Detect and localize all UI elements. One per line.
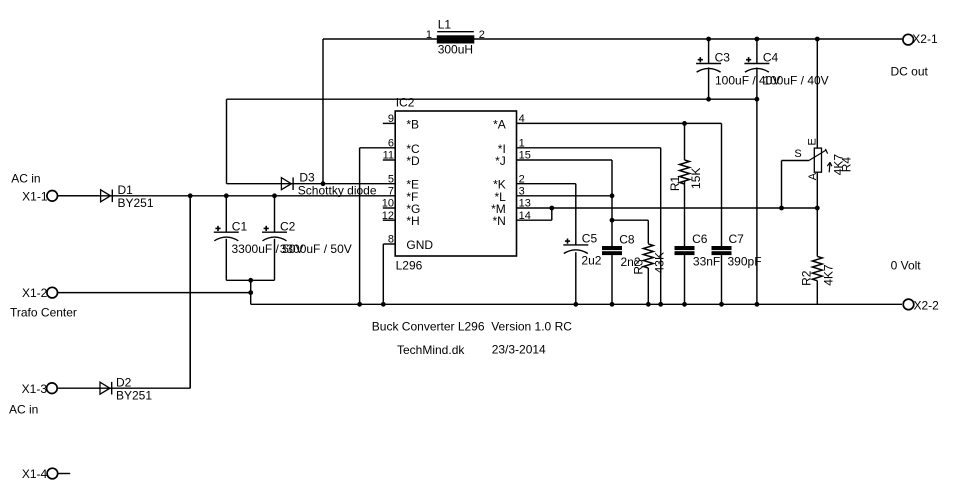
svg-text:*D: *D (406, 154, 420, 168)
svg-text:300uH: 300uH (438, 42, 473, 56)
svg-text:4K7: 4K7 (822, 264, 836, 286)
svg-text:X2-2: X2-2 (914, 299, 940, 313)
svg-text:DC out: DC out (891, 65, 929, 79)
svg-text:3: 3 (519, 185, 525, 197)
svg-text:S: S (794, 148, 801, 160)
svg-text:1: 1 (426, 29, 432, 41)
svg-text:TechMind.dk: TechMind.dk (397, 343, 465, 357)
svg-text:X1-1: X1-1 (22, 190, 48, 204)
svg-text:R3: R3 (631, 259, 645, 275)
svg-text:E: E (807, 138, 819, 145)
svg-text:R2: R2 (799, 270, 813, 286)
svg-text:*N: *N (492, 214, 505, 228)
svg-text:AC in: AC in (9, 403, 38, 417)
svg-text:15K: 15K (689, 168, 703, 189)
svg-text:2: 2 (479, 29, 485, 41)
svg-text:Trafo Center: Trafo Center (10, 306, 77, 320)
svg-text:*B: *B (406, 117, 419, 131)
svg-text:AC in: AC in (11, 171, 40, 185)
svg-text:*A: *A (493, 117, 506, 131)
svg-text:Buck Converter L296: Buck Converter L296 (372, 320, 485, 334)
svg-text:14: 14 (519, 210, 531, 222)
svg-text:43K: 43K (653, 252, 667, 273)
svg-text:X1-2: X1-2 (22, 286, 48, 300)
svg-text:33nF: 33nF (693, 254, 720, 268)
svg-text:12: 12 (382, 210, 394, 222)
svg-text:BY251: BY251 (116, 388, 152, 402)
svg-text:15: 15 (519, 150, 531, 162)
svg-text:*H: *H (406, 214, 419, 228)
svg-text:X1-3: X1-3 (22, 382, 48, 396)
svg-text:R4: R4 (840, 157, 854, 173)
svg-text:GND: GND (406, 238, 433, 252)
svg-text:Schottky diode: Schottky diode (298, 184, 377, 198)
svg-text:R1: R1 (668, 176, 682, 192)
svg-text:C7: C7 (729, 232, 745, 246)
svg-text:3300uF / 50V: 3300uF / 50V (280, 242, 352, 256)
svg-text:1: 1 (519, 137, 525, 149)
svg-text:8: 8 (388, 234, 394, 246)
svg-text:IC2: IC2 (396, 95, 415, 109)
svg-text:390pF: 390pF (728, 254, 762, 268)
svg-text:A: A (807, 172, 819, 180)
svg-text:11: 11 (383, 150, 394, 162)
svg-text:X2-1: X2-1 (912, 32, 938, 46)
svg-text:2: 2 (519, 173, 525, 185)
svg-text:L1: L1 (438, 18, 452, 32)
svg-text:C1: C1 (232, 220, 248, 234)
svg-text:0 Volt: 0 Volt (891, 259, 922, 273)
svg-text:10: 10 (382, 198, 394, 210)
svg-text:23/3-2014: 23/3-2014 (492, 342, 546, 356)
svg-text:100uF / 40V: 100uF / 40V (763, 73, 828, 87)
svg-text:L296: L296 (396, 258, 423, 272)
svg-text:4: 4 (519, 113, 525, 125)
svg-text:6: 6 (388, 137, 394, 149)
svg-text:D1: D1 (118, 183, 134, 197)
svg-text:9: 9 (388, 113, 394, 125)
svg-text:5: 5 (388, 173, 394, 185)
svg-text:C5: C5 (582, 232, 598, 246)
svg-text:D3: D3 (299, 170, 315, 184)
svg-text:BY251: BY251 (118, 196, 154, 210)
svg-text:C6: C6 (692, 232, 708, 246)
svg-text:C2: C2 (280, 220, 296, 234)
svg-text:13: 13 (519, 198, 531, 210)
svg-text:7: 7 (388, 185, 394, 197)
svg-text:*J: *J (495, 154, 506, 168)
svg-text:2u2: 2u2 (581, 254, 601, 268)
svg-text:Version 1.0 RC: Version 1.0 RC (491, 319, 572, 333)
svg-text:C8: C8 (619, 233, 635, 247)
svg-text:C4: C4 (763, 51, 779, 65)
svg-text:D2: D2 (116, 375, 132, 389)
svg-text:C3: C3 (715, 51, 731, 65)
svg-text:X1-4: X1-4 (22, 467, 48, 481)
